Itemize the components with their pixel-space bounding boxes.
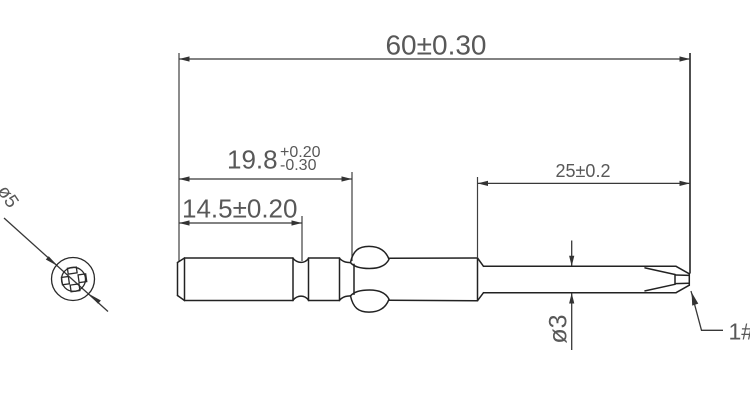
svg-text:-0.30: -0.30 [280,157,317,174]
svg-text:25±0.2: 25±0.2 [556,161,611,181]
svg-text:60±0.30: 60±0.30 [385,30,486,61]
svg-text:14.5±0.20: 14.5±0.20 [182,194,297,224]
svg-text:19.8: 19.8 [227,145,278,175]
svg-text:1#: 1# [729,319,750,345]
svg-text:ø3: ø3 [545,314,573,343]
